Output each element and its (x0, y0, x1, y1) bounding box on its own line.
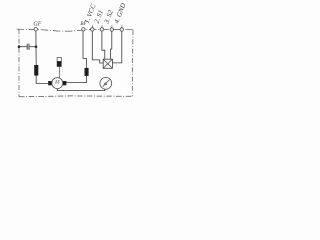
junction dot at capacitor tap (35, 45, 38, 48)
connector pin 1 stub (91, 25, 93, 27)
svg-text:GF: GF (33, 22, 41, 28)
enclosure boundary left chain line (18, 29, 20, 97)
terminal GF circle (34, 28, 37, 31)
wire pin 1 VCC down with jog to sensor left side (92, 31, 103, 63)
wire choke L2 up jog to BF pin (83, 31, 87, 68)
enclosure boundary top chain line (17, 29, 134, 31)
wire pin 2 S1 down with jog to sensor top left (102, 31, 105, 59)
connector pin BF circle (82, 28, 85, 31)
enclosure boundary right chain line (131, 30, 134, 96)
enclosure boundary bottom chain line (19, 95, 132, 98)
sensor U1 box (103, 59, 112, 68)
connector pin 2 stub (101, 25, 103, 27)
connector pin 4 stub (121, 25, 123, 27)
connector pin 3 circle (110, 28, 113, 31)
junction dot on left boundary chassis (18, 45, 21, 48)
wire capacitor junction down to choke L1 (35, 47, 37, 65)
parking switch cam mark (105, 83, 107, 85)
choke L2 (filled bar) (85, 68, 89, 76)
wire pin 4 GND down to sensor right side (113, 31, 122, 63)
svg-text:M: M (54, 80, 60, 86)
motor M right brush (63, 81, 66, 85)
wire choke L1 down and right to left brush (36, 76, 48, 84)
sensor U1 X diagonal 2 (103, 59, 112, 68)
motor M circle (52, 78, 63, 89)
wire GF terminal down to capacitor junction (35, 31, 37, 47)
parking switch slash contact (103, 80, 110, 87)
connector pin 4 circle (120, 28, 123, 31)
sensor U1 X diagonal 1 (103, 59, 112, 68)
capacitor C1 left plate (26, 44, 28, 50)
wire third brush to motor top (58, 66, 60, 77)
wire capacitor tap to left plate (30, 46, 36, 48)
connector pin 2 circle (100, 28, 103, 31)
wire pin 3 S2 down to sensor top right (111, 31, 112, 59)
motor M left brush (48, 81, 51, 85)
connector pin 3 stub (111, 25, 113, 27)
parking position switch circle (100, 77, 112, 89)
wire right brush right and up to choke L2 (66, 76, 86, 83)
third brush half-filled rectangle (57, 58, 61, 67)
choke L1 (filled bar) (34, 65, 38, 76)
wire capacitor left plate to chassis boundary (19, 46, 27, 48)
wire motor bottom to parking switch (57, 89, 105, 91)
capacitor C1 right plate (28, 44, 30, 50)
connector pin 1 circle (91, 28, 94, 31)
svg-text:4. GND: 4. GND (113, 2, 127, 24)
